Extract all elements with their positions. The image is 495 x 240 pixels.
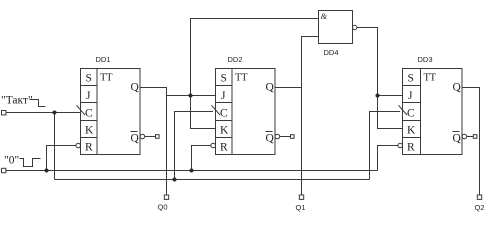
Takt waveform symbol [30,100,46,107]
svg-text:C: C [85,108,93,120]
svg-text:Q1: Q1 [296,203,306,212]
svg-text:Q2: Q2 [475,203,485,212]
svg-text:C: C [407,108,415,120]
DD2 pin labels [220,73,275,154]
node: Q0 net at DD2 J [189,94,193,98]
and-gate DD4 box [319,11,353,44]
svg-text:J: J [408,90,413,102]
svg-text:Q: Q [266,133,275,145]
DD3 Qbar stub wire [467,136,474,138]
svg-text:R: R [407,142,415,154]
wire: DD1 Q output down to Q0 [140,88,167,196]
svg-text:S: S [221,73,227,85]
svg-text:K: K [85,125,94,137]
DD3 Qbar overline [453,131,460,133]
wire: DD3 Q output down to Q2 [462,88,480,196]
flip-flop DD1 box [81,69,141,155]
svg-text:"0": "0" [4,155,19,167]
svg-text:"Такт": "Такт" [1,95,33,107]
output terminal Q1 [299,195,303,199]
svg-text:J: J [221,90,226,102]
DD1 Qbar inversion bubble [140,134,145,139]
svg-text:TT: TT [424,73,437,84]
svg-text:DD4: DD4 [324,48,339,57]
svg-text:TT: TT [235,73,248,84]
wire: DD2 Q output to Q1 vertical [275,87,302,89]
wire: DD2 J feed [167,95,216,97]
wire: DD2 R feed from 0 bus [192,146,211,171]
svg-text:DD1: DD1 [96,55,111,64]
DD2 R inversion bubble [211,143,216,148]
wire: DD3 K feed [378,96,403,129]
DD3 pin labels [407,73,462,154]
flip-flop DD2 box [216,69,276,155]
0 waveform symbol [20,159,41,167]
svg-text:Q: Q [131,82,140,94]
wire: node Q0 up to DD4 input 1 [191,19,319,96]
wire: 0 bottom bus [6,170,378,172]
wire: Takt bottom bus [55,179,370,181]
DD2 Qbar inversion bubble [275,134,280,139]
svg-text:C: C [220,108,228,120]
junction dots [45,94,380,182]
input terminal Takt [2,111,6,115]
DD1 Qbar end square [156,135,160,139]
wire: Takt to DD1 C input [6,112,81,114]
svg-text:Q0: Q0 [158,203,168,212]
svg-text:&: & [321,11,328,21]
flip-flop DD3 box [403,69,463,155]
wire: DD4 output down between DD2 and DD3 [357,28,378,96]
svg-text:J: J [86,90,91,102]
DD1 pin labels [85,73,140,154]
node: 0 bus to DD2 R [190,169,194,173]
node: 0 bus to DD1 R [45,169,49,173]
svg-text:S: S [408,73,414,85]
output terminal Q0 [164,195,168,199]
svg-text:Q: Q [266,82,275,94]
input terminal 0 [2,168,6,172]
svg-text:S: S [86,73,92,85]
DD3 R inversion bubble [398,143,403,148]
wire: DD3 J feed [378,95,403,97]
wire: Takt vertical branch down [54,113,56,180]
DD2 Qbar end square [291,135,295,139]
wire: 0 branch up to DD1 R [47,146,76,171]
DD4 output inversion bubble [353,25,357,29]
output terminal Q2 [477,195,481,199]
node: Takt branch [53,111,57,115]
node: Takt bus to DD2 C [173,178,177,182]
DD1 Qbar overline [131,131,138,133]
svg-text:R: R [220,142,228,154]
wire: DD3 C feed from Takt bus [370,112,401,180]
DD2 C dynamic slash [212,105,221,115]
DD1 R inversion bubble [76,143,81,148]
DD3 C dynamic slash [399,105,408,115]
DD1 Qbar stub wire [145,136,156,138]
svg-text:Q: Q [453,133,462,145]
DD2 Qbar overline [266,131,273,133]
wire: DD3 R feed from 0 bus [378,146,398,171]
svg-text:K: K [407,125,416,137]
wire: Q1 vertical, DD4 input 2 to Q1 terminal [302,37,319,196]
DD3 Qbar inversion bubble [462,134,467,139]
svg-text:Q: Q [131,133,140,145]
DD3 Qbar end square [473,135,477,139]
svg-text:DD3: DD3 [418,55,433,64]
svg-text:Q: Q [453,82,462,94]
node: DD4 out to DD3 J/K [376,94,380,98]
svg-text:DD2: DD2 [228,55,243,64]
svg-text:R: R [85,142,93,154]
wire: DD2 K feed [191,96,216,129]
svg-text:K: K [220,125,229,137]
svg-text:TT: TT [100,73,113,84]
DD2 Qbar stub wire [280,136,291,138]
DD1 C dynamic slash [77,105,86,115]
wire: DD2 C feed from Takt bus [175,112,214,180]
